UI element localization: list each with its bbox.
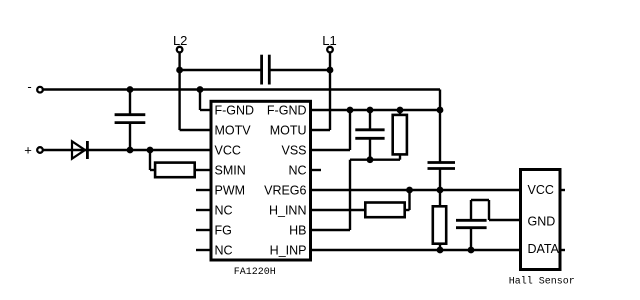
svg-text:FG: FG <box>215 224 232 238</box>
svg-text:F-GND: F-GND <box>267 104 307 118</box>
svg-text:VSS: VSS <box>281 144 306 158</box>
svg-text:Hall Sensor: Hall Sensor <box>509 275 575 287</box>
svg-text:F-GND: F-GND <box>215 104 255 118</box>
svg-text:VREG6: VREG6 <box>264 184 306 198</box>
svg-text:VCC: VCC <box>528 183 554 197</box>
svg-text:+: + <box>24 142 32 157</box>
svg-text:NC: NC <box>215 204 233 218</box>
svg-text:SMIN: SMIN <box>215 164 246 178</box>
svg-text:-: - <box>27 79 31 94</box>
svg-text:L1: L1 <box>322 33 336 48</box>
svg-text:DATA: DATA <box>528 242 560 256</box>
svg-text:L2: L2 <box>173 33 187 48</box>
svg-text:HB: HB <box>289 224 306 238</box>
svg-text:MOTU: MOTU <box>270 124 307 138</box>
svg-text:FA1220H: FA1220H <box>234 267 276 278</box>
svg-text:PWM: PWM <box>215 184 246 198</box>
svg-text:VCC: VCC <box>215 144 241 158</box>
svg-text:MOTV: MOTV <box>215 124 252 138</box>
svg-text:H_INP: H_INP <box>270 244 307 258</box>
svg-text:NC: NC <box>288 164 306 178</box>
svg-text:GND: GND <box>528 215 556 229</box>
svg-text:NC: NC <box>215 244 233 258</box>
svg-text:H_INN: H_INN <box>269 204 307 218</box>
